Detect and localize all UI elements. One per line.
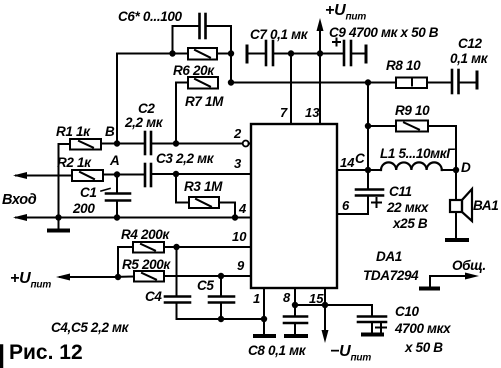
wire R5 right to pin 9 bbox=[164, 275, 251, 277]
wire pin 8 down to C8 bbox=[294, 288, 296, 317]
svg-text:А: А bbox=[109, 153, 119, 168]
svg-text:С7 0,1 мк: С7 0,1 мк bbox=[250, 27, 309, 42]
wire R3 right leg down to pin4 line bbox=[219, 203, 235, 218]
svg-text:Рис. 12: Рис. 12 bbox=[9, 341, 83, 364]
node junction pin1 / rail bbox=[261, 316, 267, 322]
resistor R6 20k bbox=[188, 48, 217, 60]
svg-text:4700 мкх: 4700 мкх bbox=[394, 321, 451, 336]
ground chassis bar C10 bbox=[363, 333, 382, 337]
wire C8 down to bar bbox=[294, 323, 296, 334]
wire C4 down to bottom rail bbox=[176, 303, 178, 320]
ground chassis bar speaker bbox=[447, 238, 467, 242]
wire C11 down to pin 6 bbox=[337, 196, 368, 215]
node junction R7 / pin 2 bbox=[173, 140, 179, 146]
capacitor C5 2,2mk bbox=[209, 295, 234, 298]
node junction pin3 / R3 bbox=[173, 171, 179, 177]
node junction C5 bottom bbox=[218, 316, 224, 322]
capacitor C11 22mk bbox=[356, 188, 383, 191]
wire -U line pin8 to C10 bbox=[295, 305, 372, 317]
wire R4 right to pin 10 bbox=[164, 246, 251, 248]
pin 2 input circle bbox=[243, 141, 249, 147]
svg-text:R8 10: R8 10 bbox=[386, 58, 421, 73]
+Upit arrow up bbox=[319, 30, 321, 54]
scan edge mark bottom-left bbox=[0, 346, 3, 368]
wire C3 to pin 3 bbox=[151, 173, 251, 175]
svg-text:15: 15 bbox=[309, 291, 324, 306]
svg-text:R9 10: R9 10 bbox=[395, 103, 430, 118]
wire pin 13 to rail bbox=[319, 54, 321, 125]
svg-text:В: В bbox=[105, 124, 115, 139]
svg-text:10: 10 bbox=[232, 229, 247, 244]
wire to R6 left junction bbox=[117, 53, 188, 55]
node junction R3 / pin 4 line bbox=[232, 214, 238, 220]
wire C6 right leg bbox=[206, 26, 232, 54]
ground chassis bar common bbox=[421, 287, 438, 291]
resistor R3 1M bbox=[189, 197, 219, 208]
svg-text:С3 2,2 мк: С3 2,2 мк bbox=[156, 151, 215, 166]
wire R1 left to input ground vertical bbox=[59, 143, 71, 145]
svg-text:3: 3 bbox=[234, 156, 242, 171]
wire C1 down to ground line bbox=[116, 201, 118, 218]
terminal left of C7 bbox=[246, 46, 249, 62]
wire C12 to terminal bbox=[459, 82, 478, 84]
svg-text:13: 13 bbox=[305, 105, 320, 120]
svg-text:R1 1к: R1 1к bbox=[56, 124, 91, 139]
wire C7 to C9 along +U rail bbox=[273, 53, 344, 55]
wire speaker down to bar bbox=[455, 212, 457, 238]
wire C6 left leg bbox=[173, 26, 200, 54]
resistor R7 1M bbox=[188, 77, 218, 89]
wire node C down to C11 bbox=[367, 170, 369, 189]
wire R4 left to +U vertical bbox=[118, 247, 133, 277]
wire input ground line to pin 4 bbox=[16, 217, 251, 219]
svg-text:R4 200к: R4 200к bbox=[121, 227, 170, 242]
resistor R5 200k bbox=[134, 271, 164, 282]
wire R1 right to node B bbox=[101, 143, 117, 145]
svg-text:С2: С2 bbox=[138, 101, 155, 116]
ground chassis bar input bbox=[58, 218, 60, 230]
svg-text:2: 2 bbox=[233, 126, 242, 141]
wire junction to R8 bbox=[368, 82, 396, 84]
svg-text:С: С bbox=[355, 151, 365, 166]
wire R2 right to node A bbox=[103, 174, 145, 176]
wire C5 down to bottom rail bbox=[220, 303, 222, 320]
resistor R1 1k bbox=[70, 139, 101, 150]
ground chassis bar C8 bbox=[286, 334, 306, 338]
svg-text:DA1: DA1 bbox=[376, 249, 402, 264]
svg-text:С8 0,1 мк: С8 0,1 мк bbox=[248, 343, 307, 358]
wire bottom rail C4-C5-pin1 bbox=[177, 318, 265, 320]
resistor R9 10 bbox=[396, 121, 428, 132]
plus sign C9 bbox=[332, 38, 341, 47]
svg-text:С5: С5 bbox=[197, 278, 214, 293]
wire R7 left to vertical bbox=[176, 82, 188, 84]
terminal right of C9 bbox=[365, 46, 368, 62]
svg-text:С4: С4 bbox=[145, 289, 162, 304]
terminal right of C12 bbox=[476, 72, 479, 88]
svg-text:ВА1: ВА1 bbox=[473, 198, 498, 213]
speaker BA1 bbox=[450, 200, 462, 212]
svg-text:22 мкх: 22 мкх bbox=[386, 200, 429, 215]
wire R4 junction down to C4 bbox=[176, 247, 178, 297]
svg-text:С12: С12 bbox=[458, 36, 483, 51]
wire +U arrow left bbox=[60, 276, 118, 278]
capacitor C7 0,1mk bbox=[265, 41, 268, 65]
svg-text:6: 6 bbox=[342, 198, 350, 213]
node A junction bbox=[114, 171, 120, 177]
node junction R4 / C4 bbox=[173, 244, 179, 250]
wire R7-left vertical down to pin 2 line bbox=[175, 83, 177, 144]
node junction pin8 / -U line bbox=[292, 302, 298, 308]
svg-text:D: D bbox=[461, 160, 471, 175]
inductor L1 5...10mkG bbox=[368, 169, 381, 171]
plus sign C10 bbox=[376, 327, 386, 329]
wire R3 left leg bbox=[176, 174, 189, 203]
wire pin 14 to node C bbox=[337, 169, 368, 171]
node junction pin13 rail bbox=[317, 50, 323, 56]
plus sign C11 bbox=[372, 202, 381, 204]
capacitor C3 2,2mk bbox=[144, 164, 147, 186]
svg-text:L1 5...10мкГ: L1 5...10мкГ bbox=[380, 146, 455, 161]
svg-text:7: 7 bbox=[280, 105, 288, 120]
svg-text:14: 14 bbox=[340, 155, 355, 170]
wire junction to R9 bbox=[368, 125, 396, 127]
wire junction down to R7 line bbox=[230, 54, 232, 83]
node B junction bbox=[114, 140, 120, 146]
svg-text:0,1 мк: 0,1 мк bbox=[450, 51, 489, 66]
resistor R8 10 bbox=[396, 78, 427, 89]
capacitor C9 4700mk bbox=[343, 41, 346, 65]
wire vertical R1-left down to ground line bbox=[58, 144, 60, 218]
capacitor C2 2,2mk bbox=[144, 132, 147, 154]
wire C9 to right terminal bbox=[351, 53, 366, 55]
node C junction bbox=[365, 167, 371, 173]
capacitor C8 0,1mk bbox=[284, 315, 307, 318]
svg-text:200: 200 bbox=[72, 201, 95, 216]
svg-text:R7 1М: R7 1М bbox=[185, 94, 224, 109]
svg-text:R2 1к: R2 1к bbox=[57, 155, 92, 170]
wire feedback line R7 junction to output vertical bbox=[231, 82, 368, 84]
node junction R7 right / feedback bbox=[228, 79, 234, 85]
node junction R6/C6 left bbox=[169, 50, 175, 56]
svg-text:С4,С5 2,2 мк: С4,С5 2,2 мк bbox=[51, 320, 130, 335]
resistor R4 200k bbox=[133, 242, 164, 253]
capacitor C6* 0...100 bbox=[198, 14, 201, 38]
node junction +U arrow bbox=[115, 274, 121, 280]
wire C2 to pin 2 circle bbox=[151, 143, 243, 145]
wire terminal to C7 bbox=[247, 53, 266, 55]
capacitor C12 0,1mk bbox=[451, 70, 454, 93]
svg-text:С10: С10 bbox=[395, 304, 420, 319]
node junction pin7 rail bbox=[288, 50, 294, 56]
svg-text:С1: С1 bbox=[80, 185, 97, 200]
node junction pin15 / C10 line bbox=[322, 302, 328, 308]
svg-text:С9 4700 мк х 50 В: С9 4700 мк х 50 В bbox=[329, 25, 439, 40]
wire input arrow upper (Vhod) bbox=[16, 175, 72, 177]
wire node B to C2 bbox=[117, 143, 145, 145]
wire pin 1 down bbox=[263, 288, 265, 334]
svg-text:9: 9 bbox=[237, 258, 245, 273]
svg-text:TDA7294: TDA7294 bbox=[363, 268, 419, 283]
svg-text:2,2 мк: 2,2 мк bbox=[124, 115, 164, 130]
wire C10 down to bar bbox=[371, 322, 373, 333]
wire common (Obsch) arrow bbox=[430, 276, 466, 288]
wire R5 left to +U junction bbox=[118, 276, 134, 278]
wire node A down to C1 bbox=[116, 175, 118, 194]
svg-text:х 50 В: х 50 В bbox=[404, 340, 443, 355]
svg-text:4: 4 bbox=[238, 201, 247, 216]
wire R9 right to node D vertical bbox=[428, 126, 456, 170]
wire R8 to C12 bbox=[427, 82, 452, 84]
svg-text:х25 В: х25 В bbox=[392, 216, 428, 231]
svg-text:R6 20к: R6 20к bbox=[173, 63, 215, 78]
wire pin 15 down with -U arrow bbox=[324, 288, 326, 332]
svg-text:R5 200к: R5 200к bbox=[122, 257, 171, 272]
wire C5 junction down bbox=[220, 276, 222, 297]
resistor R2 1k bbox=[72, 170, 103, 181]
node junction ground stub bbox=[55, 214, 61, 220]
wire node D down to speaker bbox=[455, 170, 457, 200]
svg-text:8: 8 bbox=[283, 290, 291, 305]
svg-text:1: 1 bbox=[253, 291, 260, 306]
capacitor C1 200 bbox=[106, 192, 130, 195]
capacitor C10 4700mk bbox=[358, 315, 386, 318]
node junction feedback / R8 bbox=[365, 79, 371, 85]
wire R6 right to junction bbox=[217, 53, 231, 55]
capacitor C4 2,2mk bbox=[165, 295, 190, 298]
node D junction bbox=[453, 167, 459, 173]
node junction R6/C6 right bbox=[228, 50, 234, 56]
node junction R9 left bbox=[365, 123, 371, 129]
ground chassis bar pin1 bbox=[255, 334, 274, 338]
wire pin 7 to rail bbox=[290, 54, 292, 125]
node junction C5 top bbox=[218, 273, 224, 279]
svg-text:R3 1М: R3 1М bbox=[184, 179, 223, 194]
svg-text:С6* 0...100: С6* 0...100 bbox=[118, 9, 183, 24]
svg-text:Вход: Вход bbox=[2, 192, 37, 208]
node junction C1 bottom line bbox=[114, 214, 120, 220]
op-amp U1 IC body DA1 TDA7294 bbox=[251, 124, 337, 288]
svg-text:С11: С11 bbox=[389, 184, 412, 199]
wire output vertical to node C bbox=[367, 83, 369, 171]
svg-text:Общ.: Общ. bbox=[452, 258, 486, 273]
wire node B up to R6 line bbox=[116, 54, 118, 144]
